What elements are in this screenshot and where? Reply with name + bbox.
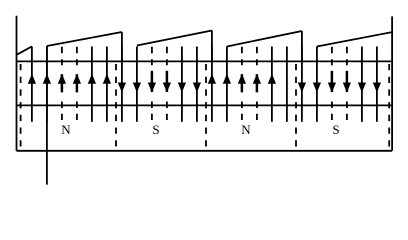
svg-text:S: S: [332, 122, 339, 137]
svg-text:S: S: [152, 122, 159, 137]
svg-text:N: N: [61, 122, 71, 137]
svg-text:N: N: [241, 122, 251, 137]
